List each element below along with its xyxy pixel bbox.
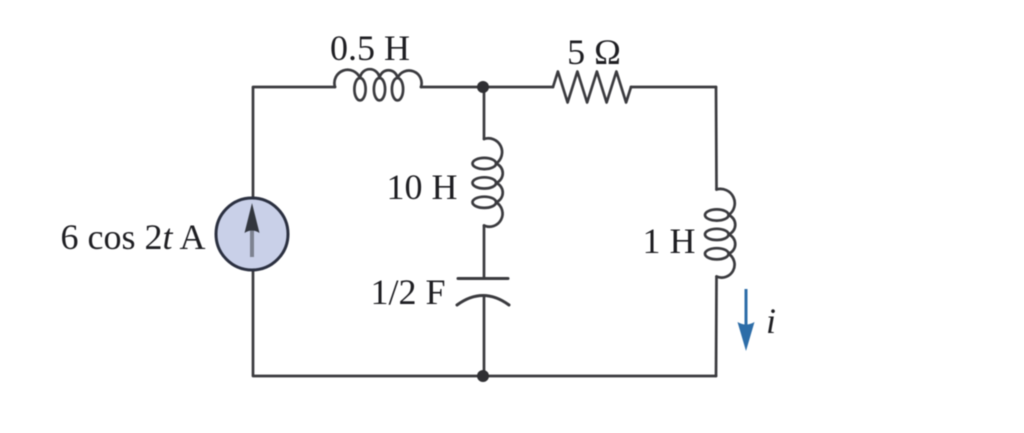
svg-text:10 H: 10 H [387, 167, 458, 207]
inductor L3 1 H [705, 189, 735, 278]
wire: middle vertical bottom (capacitor to node B) [483, 296, 486, 376]
wire: right vertical top (corner to 1H inductor) [715, 87, 718, 190]
svg-text:i: i [766, 301, 776, 341]
current arrow i (blue) shaft [745, 289, 748, 327]
current source I1 circle [216, 198, 288, 270]
svg-text:5 Ω: 5 Ω [567, 32, 621, 72]
current arrow i (blue) head [738, 322, 755, 351]
wire: left vertical bottom (source to bottom-left corner) [252, 270, 255, 375]
capacitor C1 curved bottom plate [457, 296, 509, 306]
wire: top segment middle (0.5H to 5 ohm resistor, through node A) [421, 86, 553, 89]
svg-text:0.5 H: 0.5 H [330, 28, 410, 68]
svg-text:6 cos 2t A: 6 cos 2t A [60, 217, 205, 257]
svg-text:1 H: 1 H [643, 221, 696, 261]
node B junction dot [477, 370, 489, 382]
current source I1 arrow shaft [250, 226, 254, 257]
wire: bottom segment [253, 375, 716, 378]
wire: top segment left (corner to 0.5H inductor) [253, 86, 335, 89]
current source I1 arrowhead [245, 203, 260, 233]
svg-text:1/2 F: 1/2 F [370, 272, 445, 312]
wire: middle vertical mid (10H to capacitor) [483, 226, 486, 279]
inductor L1 0.5 H [334, 69, 421, 100]
resistor R1 5 ohm [553, 72, 631, 103]
wire: middle vertical top (node A to 10H inductor) [483, 88, 486, 139]
capacitor C1 top plate [458, 277, 508, 280]
wire: top segment right (resistor to top-right corner) [631, 86, 716, 89]
wire: left vertical top (source to top-left corner) [252, 88, 255, 198]
node A junction dot [477, 81, 489, 93]
wire: right vertical bottom (1H to bottom-right corner) [715, 277, 718, 377]
inductor L2 10 H [473, 138, 503, 226]
